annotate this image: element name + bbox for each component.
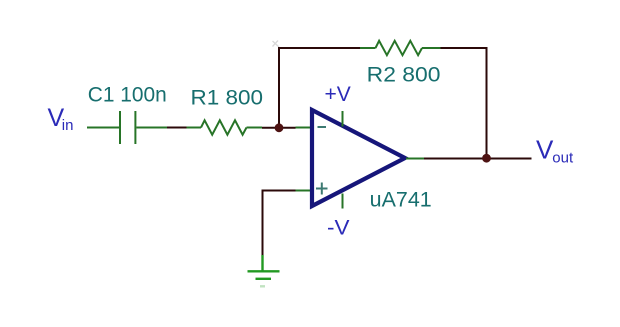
svg-text:R1 800: R1 800 xyxy=(191,87,264,110)
wire R1 to node A xyxy=(262,127,296,129)
svg-text:uA741: uA741 xyxy=(370,189,432,212)
node Vin xyxy=(48,104,74,134)
resistor R2 xyxy=(360,41,441,55)
resistor R1 xyxy=(187,120,263,134)
svg-text:+V: +V xyxy=(325,83,351,106)
wire plus input lead green xyxy=(296,190,312,192)
op-amp U1 triangle xyxy=(312,110,405,206)
node A junction dot xyxy=(275,123,284,132)
ground xyxy=(248,255,280,286)
svg-text:C1 100n: C1 100n xyxy=(88,84,167,107)
capacitor C1 xyxy=(87,111,167,144)
wire plus input horizontal and vertical to ground xyxy=(263,191,296,257)
node Vout xyxy=(536,134,574,166)
svg-text:out: out xyxy=(552,150,574,167)
wire node A to op-amp minus input lead xyxy=(296,127,312,129)
artifact faint cross mark xyxy=(273,41,280,48)
op-amp U1 minus input sign xyxy=(318,126,327,128)
wire output to node B xyxy=(424,158,532,160)
wire feedback top right and vertical right xyxy=(441,48,487,158)
svg-text:R2 800: R2 800 xyxy=(367,63,441,86)
wire output lead green xyxy=(406,158,424,160)
pin +V tick xyxy=(342,111,344,127)
wire feedback vertical left and top left xyxy=(279,48,360,128)
svg-text:-V: -V xyxy=(327,216,350,239)
wire C1 to R1 xyxy=(167,127,187,129)
node B junction dot xyxy=(482,154,491,163)
op-amp U1 plus input sign xyxy=(316,183,328,195)
svg-text:V: V xyxy=(536,134,554,164)
svg-text:in: in xyxy=(62,117,74,134)
pin -V tick xyxy=(342,194,344,209)
